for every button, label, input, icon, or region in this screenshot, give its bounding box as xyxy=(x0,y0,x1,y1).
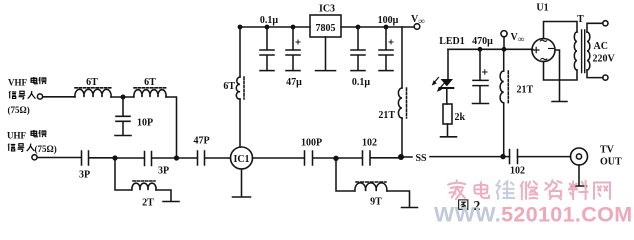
capacitor 3P second (series) xyxy=(145,152,152,166)
inductor 9T branch xyxy=(336,158,410,207)
svg-text:6T: 6T xyxy=(144,77,156,88)
svg-text:9T: 9T xyxy=(370,197,382,208)
svg-text:IC1: IC1 xyxy=(233,154,249,165)
wire 47P to IC1 xyxy=(205,157,231,159)
resistor 2k xyxy=(443,104,452,124)
terminal AC top xyxy=(603,21,608,26)
label U1 symbols xyxy=(533,40,554,60)
wire SS stub xyxy=(403,156,412,158)
svg-text:VHF: VHF xyxy=(8,78,28,88)
svg-text:10P: 10P xyxy=(137,118,153,129)
capacitor 0.1u (output side) xyxy=(351,27,365,70)
wire secondary top to AC terminal xyxy=(587,23,603,32)
svg-text:21T: 21T xyxy=(378,110,395,121)
node junction UHF 2T tap xyxy=(112,155,117,160)
transformer T secondary winding xyxy=(587,32,590,70)
wire 102 to SS node xyxy=(371,157,400,159)
wire U1 top AC to transformer xyxy=(544,22,578,39)
inductor 21T (right) xyxy=(500,49,508,154)
node junction dot at 470u xyxy=(478,47,483,52)
ground at 9T xyxy=(402,207,418,209)
node junction dot at Vdd stub xyxy=(502,47,507,52)
node junction at x=177 xyxy=(174,155,179,160)
svg-text:102: 102 xyxy=(510,166,525,177)
node junction right 21T tap xyxy=(500,154,505,159)
op-amp IC1 circle xyxy=(231,147,253,169)
op-amp IC3 7805 regulator box xyxy=(310,15,341,37)
capacitor 0.1u (input side of 7805) xyxy=(260,27,274,70)
ground under 470u xyxy=(473,103,489,105)
capacitor 47P series xyxy=(198,151,205,165)
inductor 6T vertical feed to IC1 xyxy=(236,27,244,147)
svg-text:(75Ω): (75Ω) xyxy=(8,105,30,115)
wire right 102 plates level xyxy=(506,156,571,158)
svg-text:7805: 7805 xyxy=(316,23,336,34)
label VHF xinhaoru line2 xyxy=(9,91,35,99)
svg-text:21T: 21T xyxy=(517,85,534,96)
terminal AC bottom xyxy=(603,75,608,80)
ground under 47u cap xyxy=(286,70,300,72)
svg-text:47P: 47P xyxy=(193,136,209,147)
node junction VHF at 10P xyxy=(121,95,126,100)
svg-text:0.1μ: 0.1μ xyxy=(260,15,279,26)
watermark www.520101.com xyxy=(434,203,632,227)
wire IC1 to 100P xyxy=(253,157,305,159)
inductor 21T (left) from rail to SS xyxy=(398,27,406,155)
wire UHF input to 3P xyxy=(37,157,81,159)
label UHF xinhaoru 75ohm line2 xyxy=(8,144,57,154)
ground under TV OUT xyxy=(572,165,587,186)
label figure 2 caption xyxy=(459,198,481,213)
ground under IC1 xyxy=(233,169,251,197)
svg-text:470μ: 470μ xyxy=(472,36,493,47)
node junction dot rail at x=293 xyxy=(291,25,296,30)
node junction 9T tap xyxy=(333,156,338,161)
ground under output 0.1u cap xyxy=(351,70,365,72)
svg-text:102: 102 xyxy=(362,138,377,149)
svg-text:T: T xyxy=(577,14,584,25)
svg-text:(75Ω): (75Ω) xyxy=(35,144,57,154)
node junction dot rail at x=267 xyxy=(265,25,270,30)
svg-text:UHF: UHF xyxy=(7,130,27,140)
svg-text:0.1μ: 0.1μ xyxy=(352,77,371,88)
wire between 6T coils xyxy=(111,96,133,98)
terminal Vdd right section xyxy=(501,31,507,47)
wire U1 plus terminal to rail xyxy=(531,49,534,52)
svg-text:3P: 3P xyxy=(158,166,169,177)
capacitor 100u electrolytic xyxy=(379,27,393,70)
ground under 100u cap xyxy=(379,70,393,72)
ground under 10P xyxy=(115,135,131,137)
svg-text:V∞: V∞ xyxy=(511,32,525,44)
capacitor 102 series second xyxy=(510,150,518,164)
inductor 2T branch xyxy=(115,158,171,201)
svg-text:6T: 6T xyxy=(223,81,235,92)
wire 3P to 47P xyxy=(152,157,197,159)
watermark jiadian weixiu ziliao wang script xyxy=(448,180,610,199)
wire U1 minus terminal down xyxy=(555,50,560,101)
capacitor 102 series first xyxy=(363,151,371,165)
svg-text:IC3: IC3 xyxy=(319,4,335,15)
capacitor 10P to ground xyxy=(116,97,130,135)
ground at 2T xyxy=(163,201,179,203)
wire top supply rail left of IC3 xyxy=(240,26,310,28)
wire 3P to junction xyxy=(89,157,114,159)
svg-text:OUT: OUT xyxy=(600,157,622,168)
inductor 6T second (VHF) xyxy=(134,88,166,97)
capacitor 47u electrolytic xyxy=(286,27,300,70)
svg-text:3P: 3P xyxy=(79,170,90,181)
svg-text:TV: TV xyxy=(600,145,615,156)
capacitor 470u electrolytic xyxy=(473,49,488,103)
capacitor 3P first (series) xyxy=(82,151,89,165)
svg-text:U1: U1 xyxy=(536,3,548,14)
terminal Vdd top-right of rail xyxy=(414,24,420,30)
svg-text:2k: 2k xyxy=(455,112,466,123)
LED LED1 xyxy=(432,49,454,104)
ground at U1 minus xyxy=(552,101,567,103)
node SS junction dot xyxy=(398,154,404,160)
wire top supply rail right of IC3 xyxy=(341,26,414,28)
node junction dot rail at x=240 xyxy=(238,25,243,30)
label VHF dianshi line1 xyxy=(8,77,46,88)
svg-text:220V: 220V xyxy=(593,54,616,65)
connector TV OUT xyxy=(571,148,588,165)
ground under 2k xyxy=(441,124,457,137)
svg-text:AC: AC xyxy=(594,41,608,52)
transformer T primary winding xyxy=(574,32,577,70)
terminal UHF input xyxy=(32,155,37,160)
svg-text:2T: 2T xyxy=(142,198,154,209)
svg-text:LED1: LED1 xyxy=(439,36,465,47)
ground under IC3 xyxy=(316,37,336,71)
svg-text:6T: 6T xyxy=(86,77,98,88)
node junction dot rail at x=386 xyxy=(384,25,389,30)
inductor 6T first (VHF) xyxy=(75,88,111,97)
wire 100P to junction xyxy=(313,157,334,159)
wire LED section supply rail xyxy=(448,48,533,50)
wire U1 bottom AC to transformer xyxy=(544,62,578,81)
node junction dot rail at x=358 xyxy=(356,25,361,30)
svg-text:100P: 100P xyxy=(301,138,322,149)
terminal VHF input xyxy=(37,94,42,99)
svg-text:V∞: V∞ xyxy=(411,14,425,26)
wire junction to second 3P xyxy=(117,157,144,159)
label VHF 75ohm line3 xyxy=(8,105,30,115)
label UHF dianshi line1 xyxy=(7,130,46,140)
capacitor 100P series xyxy=(305,151,313,165)
transformer T core xyxy=(582,30,585,73)
wire secondary bottom to AC terminal xyxy=(587,70,603,78)
wire 6T to UHF line corner xyxy=(166,97,177,158)
op-amp U1 bridge rectifier circle xyxy=(532,39,555,62)
svg-text:47μ: 47μ xyxy=(286,77,302,88)
ground under 0.1u input cap xyxy=(260,70,274,72)
wire VHF input to first 6T xyxy=(43,96,75,98)
wire junction to 102 xyxy=(338,157,362,159)
wire SS to right junction xyxy=(430,156,501,158)
svg-text:SS: SS xyxy=(415,153,427,164)
svg-text:WWW.520101.COM: WWW.520101.COM xyxy=(434,203,632,226)
svg-text:100μ: 100μ xyxy=(378,15,399,26)
